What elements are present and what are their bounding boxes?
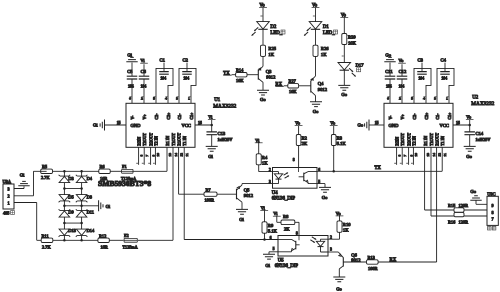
svg-text:VCC: VCC xyxy=(182,123,191,128)
svg-text:3: 3 xyxy=(330,248,332,252)
svg-text:TX: TX xyxy=(375,166,382,171)
svg-text:3: 3 xyxy=(269,180,271,184)
svg-text:R7: R7 xyxy=(206,187,212,192)
svg-text:C5: C5 xyxy=(127,69,133,74)
svg-text:8: 8 xyxy=(293,158,295,162)
svg-text:5: 5 xyxy=(273,247,275,251)
svg-text:11: 11 xyxy=(443,153,447,157)
svg-text:13: 13 xyxy=(168,153,172,157)
svg-text:15: 15 xyxy=(375,121,379,125)
svg-text:R3: R3 xyxy=(337,135,343,140)
svg-text:R2: R2 xyxy=(302,135,308,140)
svg-text:R15: R15 xyxy=(448,203,456,208)
svg-text:R1 IN: R1 IN xyxy=(423,136,428,146)
svg-text:10K: 10K xyxy=(236,78,244,83)
svg-text:C2-: C2- xyxy=(412,113,417,120)
svg-text:R6: R6 xyxy=(100,164,106,169)
svg-text:R1OUT: R1OUT xyxy=(435,132,440,145)
svg-text:Gi: Gi xyxy=(106,204,111,209)
svg-text:F1: F1 xyxy=(122,164,127,169)
svg-text:GND: GND xyxy=(389,123,400,128)
svg-text:Vi: Vi xyxy=(261,205,266,210)
svg-text:GND: GND xyxy=(131,123,142,128)
svg-text:104: 104 xyxy=(441,76,447,80)
svg-text:8: 8 xyxy=(139,155,143,157)
svg-text:Q6: Q6 xyxy=(351,252,357,257)
svg-text:1uF/25V: 1uF/25V xyxy=(218,137,233,142)
svg-text:U3A: U3A xyxy=(3,179,12,184)
svg-text:11: 11 xyxy=(185,153,189,157)
svg-text:C13: C13 xyxy=(218,131,226,136)
svg-text:2K: 2K xyxy=(284,227,290,232)
svg-text:Go: Go xyxy=(466,154,472,159)
svg-text:Go: Go xyxy=(336,286,342,291)
svg-text:C4: C4 xyxy=(441,58,447,63)
svg-text:R2IN: R2IN xyxy=(395,137,400,146)
svg-text:R12: R12 xyxy=(99,233,106,238)
svg-text:9012: 9012 xyxy=(244,193,254,198)
svg-text:10: 10 xyxy=(414,153,418,157)
svg-text:1K: 1K xyxy=(268,52,274,57)
svg-text:14: 14 xyxy=(432,153,436,157)
svg-text:10K: 10K xyxy=(289,89,297,94)
svg-text:R13: R13 xyxy=(368,255,376,260)
svg-text:104: 104 xyxy=(183,76,189,80)
svg-text:MAX3232: MAX3232 xyxy=(471,101,494,107)
svg-text:6: 6 xyxy=(270,236,272,240)
svg-text:2.7K: 2.7K xyxy=(42,244,51,249)
svg-text:MAX3232: MAX3232 xyxy=(213,103,236,109)
svg-text:9012: 9012 xyxy=(266,75,276,80)
svg-text:12: 12 xyxy=(179,153,183,157)
svg-text:Go: Go xyxy=(385,52,391,57)
svg-text:Gi: Gi xyxy=(93,123,98,128)
svg-text:U4: U4 xyxy=(272,191,278,196)
svg-text:T1 IN: T1 IN xyxy=(440,136,445,146)
svg-text:2: 2 xyxy=(330,236,332,240)
svg-text:Go: Go xyxy=(322,195,328,200)
svg-text:14: 14 xyxy=(174,153,178,157)
svg-text:C2+: C2+ xyxy=(166,112,171,120)
svg-text:V+: V+ xyxy=(142,114,147,120)
svg-text:T1 IN: T1 IN xyxy=(182,136,187,146)
svg-text:C11: C11 xyxy=(385,69,393,74)
svg-text:C1+: C1+ xyxy=(447,112,452,120)
svg-text:R14: R14 xyxy=(236,67,244,72)
svg-text:2K: 2K xyxy=(302,141,308,146)
svg-text:D3: D3 xyxy=(68,176,74,181)
svg-text:R2IN: R2IN xyxy=(137,137,142,146)
svg-text:485: 485 xyxy=(3,211,9,216)
svg-text:5.1K: 5.1K xyxy=(268,228,278,233)
svg-text:D14: D14 xyxy=(87,228,95,233)
svg-text:8: 8 xyxy=(397,155,401,157)
svg-text:C6: C6 xyxy=(141,69,147,74)
svg-text:R1OUT: R1OUT xyxy=(177,132,182,145)
svg-text:9: 9 xyxy=(151,155,155,157)
svg-text:T1OUT: T1OUT xyxy=(171,133,176,146)
svg-text:8: 8 xyxy=(492,210,494,215)
svg-text:SMB5930BT3*8: SMB5930BT3*8 xyxy=(98,179,151,188)
svg-text:D8: D8 xyxy=(87,194,93,199)
svg-text:R25: R25 xyxy=(268,46,276,51)
svg-text:100R: 100R xyxy=(205,198,215,203)
svg-text:Q5: Q5 xyxy=(244,188,250,193)
svg-text:2: 2 xyxy=(7,194,9,199)
svg-text:5.1K: 5.1K xyxy=(337,141,347,146)
svg-text:Vo: Vo xyxy=(336,211,342,216)
svg-text:R39: R39 xyxy=(348,35,356,40)
svg-text:Go: Go xyxy=(358,123,364,128)
svg-text:R10: R10 xyxy=(343,222,351,227)
svg-text:U2: U2 xyxy=(472,96,478,101)
svg-text:C2-: C2- xyxy=(154,113,159,120)
svg-text:Vi: Vi xyxy=(273,211,278,216)
svg-text:104: 104 xyxy=(386,84,392,88)
svg-text:104: 104 xyxy=(141,84,147,88)
svg-text:104: 104 xyxy=(418,76,424,80)
svg-text:V-: V- xyxy=(388,115,393,120)
svg-text:RX: RX xyxy=(390,258,397,263)
svg-text:Gi: Gi xyxy=(20,173,25,178)
svg-text:C1-: C1- xyxy=(177,113,182,120)
svg-text:104: 104 xyxy=(399,84,405,88)
svg-text:R5: R5 xyxy=(42,164,48,169)
svg-text:D1: D1 xyxy=(323,25,329,30)
svg-text:9012: 9012 xyxy=(318,87,328,92)
svg-text:120R: 120R xyxy=(459,219,469,224)
svg-text:Go: Go xyxy=(341,92,347,97)
svg-text:7: 7 xyxy=(403,155,407,157)
svg-text:D17: D17 xyxy=(356,63,365,68)
svg-text:104: 104 xyxy=(160,76,166,80)
svg-text:10K: 10K xyxy=(348,40,357,45)
svg-text:7: 7 xyxy=(492,216,494,221)
svg-text:15: 15 xyxy=(117,121,121,125)
svg-text:120R: 120R xyxy=(459,203,469,208)
svg-text:T2OUT: T2OUT xyxy=(400,133,405,146)
svg-text:6N136_DIP: 6N136_DIP xyxy=(272,196,296,201)
svg-text:D9: D9 xyxy=(68,210,74,215)
svg-text:T125mA: T125mA xyxy=(123,244,138,249)
svg-text:V+: V+ xyxy=(400,114,405,120)
svg-text:U1: U1 xyxy=(214,98,220,103)
svg-text:C3: C3 xyxy=(418,58,424,63)
svg-text:D13: D13 xyxy=(68,228,76,233)
svg-text:Vo: Vo xyxy=(398,58,404,63)
svg-text:Gi: Gi xyxy=(208,154,213,159)
svg-text:2.7K: 2.7K xyxy=(41,175,50,180)
svg-text:100R: 100R xyxy=(368,266,378,271)
svg-text:Go: Go xyxy=(260,97,266,102)
svg-text:VCC: VCC xyxy=(440,123,449,128)
svg-text:R27: R27 xyxy=(289,78,297,83)
svg-text:F2: F2 xyxy=(124,233,129,238)
svg-text:R4: R4 xyxy=(262,155,268,160)
svg-text:R8: R8 xyxy=(283,214,289,219)
svg-text:Go: Go xyxy=(470,189,476,194)
svg-text:10: 10 xyxy=(156,153,160,157)
svg-text:V-: V- xyxy=(130,115,135,120)
svg-text:Q4: Q4 xyxy=(318,81,324,86)
svg-text:1K: 1K xyxy=(343,228,349,233)
svg-text:7: 7 xyxy=(145,155,149,157)
svg-text:12: 12 xyxy=(437,153,441,157)
svg-text:10R: 10R xyxy=(101,244,108,249)
svg-text:Vi: Vi xyxy=(255,138,260,143)
svg-text:Vo: Vo xyxy=(295,121,301,126)
svg-text:C1-: C1- xyxy=(435,113,440,120)
svg-text:R1 IN: R1 IN xyxy=(165,136,170,146)
svg-text:6: 6 xyxy=(318,168,320,172)
svg-text:Vi: Vi xyxy=(208,115,213,120)
svg-text:C12: C12 xyxy=(399,69,407,74)
svg-text:U5: U5 xyxy=(278,259,284,264)
svg-text:Vo: Vo xyxy=(330,121,336,126)
svg-text:Q3: Q3 xyxy=(266,69,272,74)
svg-text:13: 13 xyxy=(426,153,430,157)
svg-text:T2 IN: T2 IN xyxy=(153,136,158,146)
svg-text:C2: C2 xyxy=(183,58,189,63)
svg-text:R16: R16 xyxy=(448,219,456,224)
svg-text:6N136_DIP: 6N136_DIP xyxy=(275,264,299,269)
svg-text:9: 9 xyxy=(492,203,494,208)
svg-text:T2 IN: T2 IN xyxy=(411,136,416,146)
svg-text:1K: 1K xyxy=(262,160,268,165)
svg-text:R9: R9 xyxy=(268,223,274,228)
svg-text:3: 3 xyxy=(7,187,9,192)
svg-text:Gi: Gi xyxy=(265,263,270,268)
svg-text:2: 2 xyxy=(269,168,271,172)
svg-text:1uF/25V: 1uF/25V xyxy=(476,137,491,142)
svg-text:1K: 1K xyxy=(321,52,327,57)
svg-text:Vi: Vi xyxy=(140,58,145,63)
svg-text:R11: R11 xyxy=(42,233,49,238)
svg-text:Go: Go xyxy=(313,109,319,114)
svg-text:Gi: Gi xyxy=(127,52,132,57)
svg-text:T1OUT: T1OUT xyxy=(429,133,434,146)
svg-text:U3C: U3C xyxy=(487,192,495,197)
svg-text:R26: R26 xyxy=(321,46,329,51)
svg-text:C1+: C1+ xyxy=(189,112,194,120)
svg-text:104: 104 xyxy=(128,84,134,88)
svg-text:C1: C1 xyxy=(160,58,166,63)
svg-text:C14: C14 xyxy=(476,131,484,136)
svg-text:D4: D4 xyxy=(87,176,93,181)
svg-text:Vo: Vo xyxy=(466,115,472,120)
svg-text:D5: D5 xyxy=(68,194,74,199)
svg-text:T2OUT: T2OUT xyxy=(142,133,147,146)
svg-text:16: 16 xyxy=(456,121,460,125)
svg-text:D11: D11 xyxy=(87,210,94,215)
svg-text:1: 1 xyxy=(7,201,9,206)
svg-text:D2: D2 xyxy=(270,25,276,30)
svg-text:Gi: Gi xyxy=(239,217,244,222)
svg-text:C2+: C2+ xyxy=(424,112,429,120)
svg-text:9: 9 xyxy=(409,155,413,157)
svg-text:16: 16 xyxy=(198,121,202,125)
svg-text:9012: 9012 xyxy=(351,258,361,263)
